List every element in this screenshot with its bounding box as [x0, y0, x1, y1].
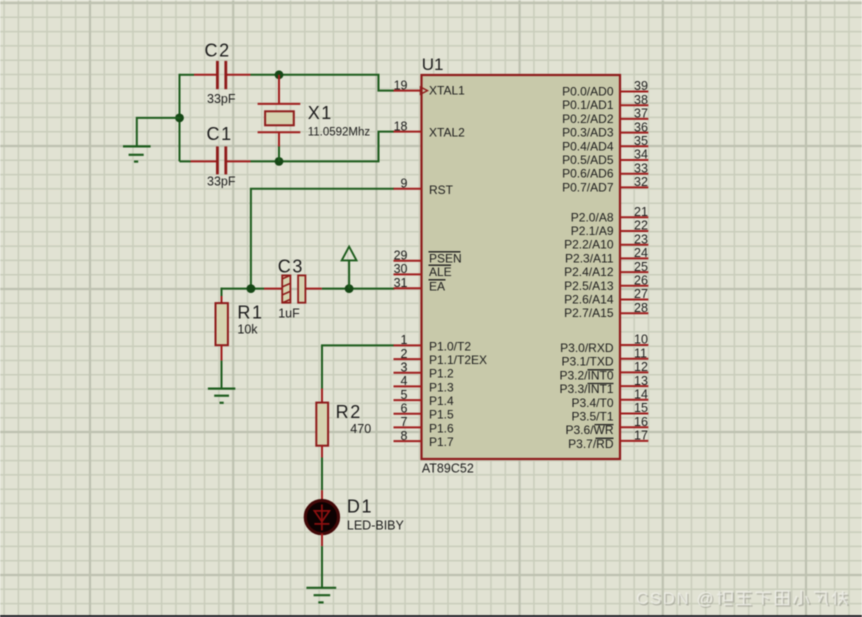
- pin 3 (P1.2): [394, 372, 422, 374]
- svg-text:X1: X1: [308, 103, 333, 123]
- pin 5 (P1.4): [394, 399, 422, 401]
- overline PSEN: [429, 251, 461, 253]
- pin 7 (P1.6): [394, 426, 422, 428]
- wire net XTAL2: C1 row to pin18: [251, 132, 395, 162]
- svg-text:P1.7: P1.7: [429, 435, 454, 449]
- pin 22 (P2.1/A9): [620, 230, 648, 232]
- node junction ground-branch: [175, 114, 184, 123]
- svg-text:32: 32: [634, 175, 648, 189]
- svg-text:P0.5/AD5: P0.5/AD5: [562, 153, 614, 167]
- capacitor C2: [194, 74, 216, 76]
- svg-text:P2.2/A10: P2.2/A10: [564, 238, 614, 252]
- pin 6 (P1.5): [394, 413, 422, 415]
- svg-text:39: 39: [634, 79, 648, 93]
- svg-text:P3.0/RXD: P3.0/RXD: [560, 341, 614, 355]
- svg-text:R2: R2: [336, 402, 362, 422]
- pin 39 (P0.0/AD0): [620, 91, 648, 93]
- svg-text:CSDN @: CSDN @: [636, 589, 715, 608]
- svg-text:U1: U1: [422, 55, 444, 74]
- svg-text:37: 37: [634, 107, 648, 121]
- svg-text:D1: D1: [347, 497, 373, 517]
- svg-text:28: 28: [634, 301, 648, 315]
- pin 19 (XTAL1): [394, 90, 422, 92]
- svg-text:29: 29: [394, 248, 408, 262]
- svg-text:XTAL1: XTAL1: [429, 84, 465, 98]
- capacitor C3: [264, 288, 282, 290]
- svg-text:38: 38: [634, 93, 648, 107]
- pin 19 clock input arrow: [421, 87, 428, 94]
- svg-text:P2.1/A9: P2.1/A9: [571, 224, 614, 238]
- svg-text:2: 2: [401, 347, 408, 361]
- pin 13 (P3.3/INT1): [620, 385, 648, 387]
- svg-text:C2: C2: [205, 41, 231, 61]
- svg-text:C1: C1: [207, 124, 233, 144]
- pin 17 (P3.7/RD): [620, 440, 648, 442]
- svg-text:12: 12: [634, 360, 648, 374]
- svg-text:33: 33: [634, 161, 648, 175]
- pin 14 (P3.4/T0): [620, 399, 648, 401]
- pin 2 (P1.1/T2EX): [394, 358, 422, 360]
- svg-text:R1: R1: [237, 303, 263, 323]
- wire net P1.0: pin1 to R2: [322, 345, 394, 388]
- pin 31 (EA): [394, 287, 422, 289]
- svg-text:XTAL2: XTAL2: [429, 126, 465, 140]
- svg-text:P2.6/A14: P2.6/A14: [564, 293, 614, 307]
- svg-text:31: 31: [394, 276, 408, 290]
- svg-text:470: 470: [350, 422, 371, 436]
- svg-text:P3.3/INT1: P3.3/INT1: [559, 382, 613, 396]
- ground (D1): [306, 588, 336, 603]
- pin 11 (P3.1/TXD): [620, 358, 648, 360]
- svg-text:17: 17: [634, 429, 648, 443]
- wire net XTAL1: C2 to pin19: [251, 75, 395, 91]
- svg-text:4: 4: [401, 374, 408, 388]
- svg-text:P1.5: P1.5: [429, 408, 454, 422]
- resistor R2: [321, 389, 323, 403]
- svg-text:21: 21: [634, 205, 648, 219]
- power VCC arrow: [348, 260, 350, 288]
- pin 9 (RST): [394, 188, 422, 190]
- pin 1 (P1.0/T2): [394, 344, 422, 346]
- LED D1: [321, 490, 323, 501]
- svg-text:23: 23: [634, 232, 648, 246]
- ground (R1): [208, 389, 235, 403]
- svg-text:P2.5/A13: P2.5/A13: [564, 279, 614, 293]
- pin 37 (P0.2/AD2): [620, 118, 648, 120]
- svg-text:C3: C3: [278, 257, 304, 277]
- svg-text:P3.7/RD: P3.7/RD: [568, 437, 614, 451]
- crystal X1: [278, 75, 280, 104]
- svg-text:9: 9: [401, 177, 408, 191]
- svg-text:33pF: 33pF: [207, 174, 236, 188]
- svg-text:AT89C52: AT89C52: [422, 462, 474, 476]
- pin 12 (P3.2/INT0): [620, 371, 648, 373]
- svg-text:15: 15: [634, 401, 648, 415]
- svg-text:P0.6/AD6: P0.6/AD6: [562, 167, 614, 181]
- svg-text:P1.6: P1.6: [429, 421, 454, 435]
- svg-text:P0.2/AD2: P0.2/AD2: [562, 112, 614, 126]
- pin 32 (P0.7/AD7): [620, 186, 648, 188]
- svg-text:P1.1/T2EX: P1.1/T2EX: [429, 353, 487, 367]
- svg-text:33pF: 33pF: [207, 92, 236, 106]
- svg-text:P1.3: P1.3: [429, 380, 454, 394]
- wire net EA row: [221, 288, 264, 290]
- svg-text:6: 6: [401, 401, 408, 415]
- pin 18 (XTAL2): [394, 131, 422, 133]
- svg-text:ALE: ALE: [429, 265, 452, 279]
- svg-text:34: 34: [634, 148, 648, 162]
- IC U1 AT89C52 body: [422, 75, 621, 459]
- pin 30 (ALE): [394, 273, 422, 275]
- pin 27 (P2.6/A14): [620, 299, 648, 301]
- svg-text:5: 5: [401, 388, 408, 402]
- pin 33 (P0.6/AD6): [620, 173, 648, 175]
- svg-text:36: 36: [634, 120, 648, 134]
- pin 28 (P2.7/A15): [620, 312, 648, 314]
- svg-text:P3.1/TXD: P3.1/TXD: [561, 355, 613, 369]
- node junction crystal-top: [275, 70, 284, 79]
- svg-text:P2.3/A11: P2.3/A11: [565, 251, 614, 265]
- pin 25 (P2.4/A12): [620, 271, 648, 273]
- svg-text:P3.4/T0: P3.4/T0: [571, 396, 613, 410]
- overline ALE: [429, 264, 452, 266]
- pin 10 (P3.0/RXD): [620, 344, 648, 346]
- svg-text:30: 30: [394, 262, 408, 276]
- svg-text:P0.7/AD7: P0.7/AD7: [562, 180, 614, 194]
- svg-text:P3.2/INT0: P3.2/INT0: [559, 368, 613, 382]
- pin 4 (P1.3): [394, 385, 422, 387]
- svg-text:10: 10: [634, 333, 648, 347]
- svg-text:P2.7/A15: P2.7/A15: [564, 306, 614, 320]
- CSDN watermark: [637, 590, 848, 609]
- svg-text:P1.0/T2: P1.0/T2: [429, 339, 471, 353]
- wire C2 row left elbow: [180, 74, 195, 76]
- svg-text:7: 7: [401, 415, 408, 429]
- overline EA: [429, 279, 446, 281]
- capacitor C1: [180, 160, 191, 162]
- ground (left): [123, 146, 151, 161]
- pin 36 (P0.3/AD3): [620, 132, 648, 134]
- svg-text:11: 11: [634, 346, 647, 360]
- svg-text:26: 26: [634, 274, 648, 288]
- pin 8 (P1.7): [394, 440, 422, 442]
- svg-text:P0.0/AD0: P0.0/AD0: [562, 85, 614, 99]
- pin 35 (P0.4/AD4): [620, 145, 648, 147]
- pin 38 (P0.1/AD1): [620, 104, 648, 106]
- svg-text:24: 24: [634, 246, 648, 260]
- node junction VCC/EA: [345, 284, 354, 293]
- svg-text:P0.4/AD4: P0.4/AD4: [562, 139, 614, 153]
- node junction crystal-bottom: [275, 157, 284, 166]
- svg-text:RST: RST: [429, 183, 454, 197]
- svg-text:LED-BIBY: LED-BIBY: [347, 519, 405, 533]
- pin 16 (P3.6/WR): [620, 426, 648, 428]
- svg-text:1uF: 1uF: [278, 307, 300, 321]
- svg-text:18: 18: [394, 119, 408, 133]
- wire left vertical C2-C1: [179, 74, 181, 162]
- wire net RST: [251, 189, 394, 289]
- pin 34 (P0.5/AD5): [620, 159, 648, 161]
- svg-text:27: 27: [634, 287, 648, 301]
- svg-text:22: 22: [634, 219, 648, 233]
- svg-text:P1.2: P1.2: [429, 367, 454, 381]
- pin 21 (P2.0/A8): [620, 216, 648, 218]
- svg-text:25: 25: [634, 260, 648, 274]
- pin 29 (PSEN): [394, 260, 422, 262]
- svg-text:P0.3/AD3: P0.3/AD3: [562, 126, 614, 140]
- pin 23 (P2.2/A10): [620, 244, 648, 246]
- svg-text:11.0592Mhz: 11.0592Mhz: [308, 126, 371, 138]
- svg-text:14: 14: [634, 388, 648, 402]
- svg-text:13: 13: [634, 374, 648, 388]
- svg-text:EA: EA: [429, 279, 445, 293]
- svg-text:P2.0/A8: P2.0/A8: [571, 210, 614, 224]
- pin 26 (P2.5/A13): [620, 285, 648, 287]
- svg-text:10k: 10k: [237, 323, 258, 337]
- resistor R1: [221, 288, 223, 296]
- svg-text:P2.4/A12: P2.4/A12: [564, 265, 614, 279]
- svg-text:16: 16: [634, 415, 648, 429]
- pin 15 (P3.5/T1): [620, 413, 648, 415]
- svg-text:P3.5/T1: P3.5/T1: [571, 410, 613, 424]
- svg-text:35: 35: [634, 134, 648, 148]
- wire ground branch: [137, 118, 181, 146]
- node junction RST/EA: [247, 284, 256, 293]
- svg-text:PSEN: PSEN: [429, 251, 462, 265]
- svg-text:P0.1/AD1: P0.1/AD1: [562, 98, 614, 112]
- svg-text:19: 19: [394, 78, 408, 92]
- bottom border line: [0, 615, 862, 617]
- svg-text:8: 8: [401, 429, 408, 443]
- svg-text:P1.4: P1.4: [429, 394, 454, 408]
- pin 24 (P2.3/A11): [620, 257, 648, 259]
- svg-text:P3.6/WR: P3.6/WR: [565, 423, 613, 437]
- svg-text:3: 3: [401, 360, 408, 374]
- svg-text:1: 1: [401, 333, 408, 347]
